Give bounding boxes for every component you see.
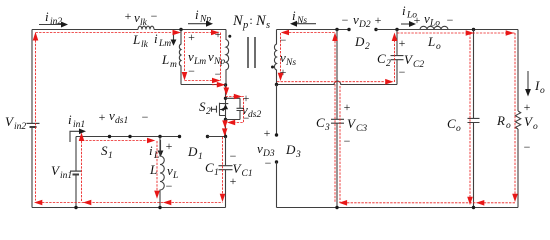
svg-text:ds2: ds2 — [248, 110, 261, 120]
svg-text:2: 2 — [206, 107, 211, 117]
wire red transformer loop right — [220, 33, 222, 81]
node Vin1 bottom — [74, 206, 77, 209]
svg-text:s: s — [266, 20, 270, 31]
node polarity dot Np — [228, 35, 231, 38]
label Llk — [132, 32, 149, 50]
arrow i_Ns — [290, 21, 316, 27]
node D2 anode — [347, 28, 350, 31]
svg-text:i: i — [68, 112, 72, 127]
resistor Ro zigzag — [515, 111, 520, 129]
wire red Ns winding — [278, 33, 284, 81]
svg-text:D: D — [187, 144, 198, 159]
wire red bottom left return — [34, 200, 223, 206]
wire Vin1 branch — [75, 137, 77, 208]
arrow i_Lo — [401, 21, 416, 27]
svg-text:L: L — [132, 32, 140, 47]
node S2 source — [224, 118, 227, 121]
wire red current path primary top — [36, 30, 182, 36]
svg-text:i: i — [402, 3, 406, 18]
wire red Vin1 branch — [79, 133, 85, 202]
svg-text:in2: in2 — [14, 122, 26, 132]
svg-text:o: o — [456, 124, 461, 134]
label plus minus C3 — [344, 100, 351, 148]
svg-text:+: + — [344, 100, 351, 114]
label D2 — [354, 34, 370, 52]
diode S2 body diode — [223, 98, 240, 119]
label i_Lm — [154, 31, 171, 49]
node Ns bottom junction — [275, 83, 278, 86]
wire red transformer loop bottom — [185, 78, 221, 84]
wire bottom left rail — [32, 207, 226, 209]
svg-text:i: i — [154, 31, 158, 46]
svg-text:−: − — [342, 13, 349, 27]
label + v_lk - — [125, 9, 158, 28]
svg-text:+: + — [166, 139, 173, 153]
svg-text:−: − — [447, 13, 454, 27]
node D2 cathode — [374, 28, 377, 31]
label S1 — [101, 143, 113, 161]
wire red C3 branch down — [339, 86, 341, 203]
wire D3 branch upper — [276, 85, 278, 136]
label I_o — [534, 78, 545, 96]
label i_Lo — [402, 3, 417, 21]
label C2 — [377, 51, 391, 69]
label Vin2 — [5, 114, 26, 132]
svg-text:in2: in2 — [50, 17, 62, 27]
wire transformer bottom — [181, 84, 226, 86]
wire red S2 drain entry — [224, 86, 230, 96]
wire C2 bottom to Ns bottom with hop — [277, 81, 398, 84]
svg-text:+: + — [399, 36, 406, 50]
label plus minus v_D3 — [264, 126, 272, 170]
wire primary top rail left segment — [32, 29, 138, 31]
node junction transformer top — [179, 28, 182, 31]
label plus minus Lm — [188, 30, 195, 78]
svg-text:in1: in1 — [73, 120, 85, 130]
wire bottom right rail — [277, 207, 519, 209]
label V_C3 — [347, 116, 367, 134]
label i_L — [149, 143, 159, 161]
winding Ns secondary — [274, 30, 276, 85]
svg-text:Lm: Lm — [158, 39, 171, 49]
wire primary top rail right segment — [154, 29, 226, 31]
label Vin1 — [51, 163, 72, 181]
wire red C3 branch up — [332, 33, 338, 204]
svg-text:1: 1 — [214, 168, 219, 178]
label v_Ns — [280, 50, 296, 68]
svg-text:−: − — [344, 134, 351, 148]
svg-text:i: i — [195, 7, 199, 22]
svg-text:o: o — [533, 122, 538, 132]
label Lo — [427, 34, 441, 52]
svg-text:−: − — [265, 156, 272, 170]
label D1 — [187, 144, 203, 162]
svg-text:Np: Np — [213, 57, 225, 67]
label plus minus Np — [215, 27, 222, 81]
battery Vin1 — [70, 171, 82, 174]
svg-text:i: i — [45, 9, 49, 24]
wire red transformer loop left — [182, 33, 188, 81]
svg-text:i: i — [292, 8, 296, 23]
capacitor C3 — [331, 30, 344, 208]
wire D3 branch lower — [276, 162, 278, 208]
svg-text:+: + — [524, 100, 531, 114]
label L — [149, 162, 157, 177]
wire red S2 capacitor loop — [226, 94, 244, 126]
label C3 — [316, 115, 330, 133]
wire red C1 branch — [220, 137, 226, 202]
wire secondary top rail right — [376, 29, 518, 31]
switch S2 drain wire — [225, 85, 227, 137]
battery Vin2 — [27, 123, 40, 127]
wire red L branch — [154, 141, 160, 199]
node Co bottom — [472, 206, 475, 209]
wire red S1 row — [82, 138, 155, 144]
svg-text:Ns: Ns — [285, 58, 296, 68]
svg-text:R: R — [496, 113, 505, 128]
inductor Lm winding — [179, 30, 181, 85]
svg-text:C: C — [316, 115, 325, 130]
arrow i_Np — [188, 21, 213, 27]
wire red transformer loop top — [185, 30, 220, 36]
svg-text:2: 2 — [386, 59, 391, 69]
svg-text:2: 2 — [365, 42, 370, 52]
svg-text:o: o — [540, 86, 545, 96]
node C2 branch top — [395, 28, 398, 31]
svg-text:−: − — [151, 9, 158, 23]
node D3 cathode — [275, 160, 278, 163]
svg-text:C3: C3 — [356, 124, 367, 134]
label V_C2 — [404, 52, 424, 70]
winding Np primary — [226, 30, 229, 85]
wire red transformer exit — [212, 82, 225, 88]
label + v_Lo - — [414, 11, 454, 29]
transformer core bars — [248, 37, 255, 68]
svg-text:3: 3 — [295, 150, 301, 160]
arrow I_o — [525, 71, 531, 97]
wire red secondary top left — [281, 30, 335, 36]
arrow i_Lm — [171, 32, 177, 46]
transistor S2 mosfet body — [212, 103, 226, 116]
svg-text:C1: C1 — [242, 169, 253, 179]
label Np : Ns — [232, 13, 270, 31]
svg-text:+: + — [230, 174, 237, 188]
svg-text:L: L — [161, 52, 169, 67]
svg-text:lk: lk — [141, 40, 149, 50]
svg-text:L: L — [149, 162, 157, 177]
svg-text:+: + — [99, 110, 106, 124]
label S2 — [199, 99, 211, 117]
node C3 branch top — [335, 28, 338, 31]
svg-text:m: m — [170, 60, 177, 70]
label plus minus Vo — [524, 100, 531, 154]
svg-text:−: − — [142, 110, 149, 124]
svg-text:Lm: Lm — [193, 57, 206, 67]
svg-text:o: o — [436, 42, 441, 52]
inductor L — [160, 137, 164, 208]
inductor Llk coil — [138, 26, 154, 29]
svg-text:+: + — [125, 9, 132, 23]
label v_Np — [208, 49, 225, 67]
wire S1 D1 row left — [76, 136, 180, 138]
svg-text:C2: C2 — [413, 60, 424, 70]
svg-text:−: − — [166, 179, 173, 193]
label plus minus C2 — [399, 36, 406, 79]
svg-text::: : — [249, 13, 252, 27]
svg-text:lk: lk — [140, 18, 148, 28]
svg-text:C: C — [205, 160, 214, 175]
label C1 — [205, 160, 219, 178]
label i_Ns — [292, 8, 307, 26]
svg-text:1: 1 — [198, 152, 203, 162]
svg-text:D: D — [354, 34, 365, 49]
label Lm — [161, 52, 177, 70]
label plus minus vL — [166, 139, 173, 193]
node polarity dot Ns — [271, 66, 274, 69]
wire red S2 source exit — [222, 120, 228, 136]
svg-text:−: − — [399, 65, 406, 79]
node S2 drain — [224, 97, 227, 100]
label i_in1 — [68, 112, 85, 130]
svg-text:L: L — [427, 34, 435, 49]
svg-text:L: L — [172, 171, 178, 181]
label Co — [447, 116, 461, 134]
svg-text:ds1: ds1 — [115, 116, 128, 126]
svg-text:i: i — [149, 143, 153, 158]
svg-text:p: p — [242, 20, 248, 31]
svg-text:o: o — [506, 121, 511, 131]
label v_ds2 — [242, 102, 261, 120]
label v_D3 — [257, 141, 275, 159]
svg-text:−: − — [188, 64, 195, 78]
node L top junction — [158, 135, 161, 138]
node D1 cathode — [206, 135, 209, 138]
svg-text:L: L — [153, 151, 159, 161]
label V_C1 — [233, 161, 253, 179]
capacitor C2 — [391, 30, 404, 85]
svg-text:S: S — [199, 99, 206, 114]
wire red C2 branch — [392, 33, 398, 83]
svg-text:−: − — [524, 140, 531, 154]
label plus minus Ns — [280, 33, 287, 79]
svg-text:S: S — [101, 143, 108, 158]
wire red right rail — [512, 33, 518, 202]
label D3 — [285, 142, 301, 160]
svg-text:C: C — [377, 51, 386, 66]
inductor Lo coil — [420, 26, 448, 29]
node Co branch top — [472, 28, 475, 31]
node S1 left terminal — [108, 135, 111, 138]
capacitor Co — [468, 30, 480, 208]
label v_L — [167, 163, 178, 181]
label + v_ds1 - — [99, 108, 149, 126]
svg-text:in1: in1 — [60, 171, 72, 181]
label plus minus C1 — [230, 149, 237, 188]
svg-text:3: 3 — [324, 123, 330, 133]
wire D1 cathode to S2 source column — [208, 136, 226, 138]
arrow i_in1 — [70, 129, 86, 143]
wire red secondary middle row — [277, 79, 394, 85]
label v_Lm — [188, 49, 206, 67]
svg-text:1: 1 — [108, 151, 113, 161]
node C1 top junction — [224, 135, 227, 138]
wire red bottom right return — [339, 200, 515, 206]
node L bottom — [158, 206, 161, 209]
node D1 anode — [178, 135, 181, 138]
node transformer bottom right — [224, 83, 227, 86]
node S1 right terminal — [128, 135, 131, 138]
label V_o — [524, 114, 538, 132]
wire red Co branch — [467, 33, 473, 205]
capacitor C1 — [219, 137, 233, 208]
arrow i_L — [158, 140, 164, 157]
svg-text:D2: D2 — [358, 20, 371, 30]
arrow i_in2 — [39, 22, 68, 28]
svg-text:−: − — [230, 149, 237, 163]
label - v_D2 + — [342, 12, 382, 30]
wire left rail Vin2 branch — [31, 30, 33, 208]
svg-text:D: D — [285, 142, 296, 157]
svg-text:Ns: Ns — [296, 16, 307, 26]
svg-text:+: + — [414, 13, 421, 27]
svg-text:+: + — [264, 126, 271, 140]
node C3 bottom — [335, 206, 338, 209]
capacitor S2 output capacitance — [237, 98, 244, 119]
wire red current path left rail — [33, 32, 39, 201]
label i_in2 — [45, 9, 62, 27]
wire right rail with resistor Ro — [517, 30, 519, 208]
wire secondary top rail left — [277, 29, 350, 31]
label plus minus v_ds2 — [243, 91, 250, 125]
label i_Np — [195, 7, 211, 25]
wire red secondary top right — [397, 30, 515, 36]
svg-text:+: + — [375, 13, 382, 27]
label Ro — [496, 113, 511, 131]
node D3 anode — [275, 133, 278, 136]
svg-text:C: C — [447, 116, 456, 131]
